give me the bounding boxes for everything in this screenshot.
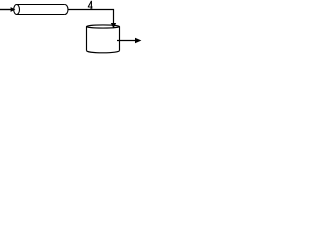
- node: down arrowhead: [111, 23, 116, 28]
- node: horizontal cylinder (drum): [14, 5, 68, 15]
- node: entry arrowhead: [11, 7, 16, 12]
- node: exit arrowhead: [135, 38, 141, 43]
- wire: horizontal run with corner going down: [68, 10, 114, 25]
- label: weight 4: [88, 1, 93, 8]
- wire: entry arrow shaft: [0, 9, 11, 11]
- wire: exit arrow shaft: [117, 40, 136, 42]
- node: database cylinder: [87, 25, 120, 53]
